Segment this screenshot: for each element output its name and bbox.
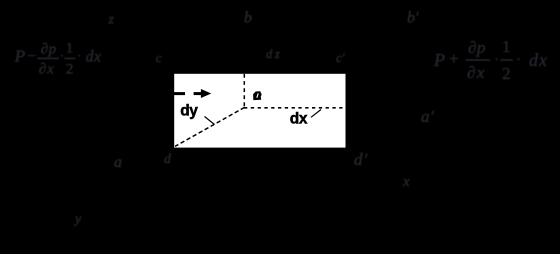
svg-text:·: · [516,52,521,68]
svg-text:dx: dx [529,50,548,70]
svg-text:·: · [77,49,82,64]
svg-text:·: · [60,49,65,64]
svg-text:∂x: ∂x [39,61,55,77]
svg-text:P: P [433,50,445,70]
svg-text:2: 2 [66,61,74,77]
svg-text:a′: a′ [421,107,434,126]
svg-text:∂p: ∂p [41,41,57,57]
svg-text:dy: dy [180,103,198,120]
svg-text:a: a [114,154,122,171]
svg-text:dx: dx [86,48,102,65]
svg-text:−: − [28,48,36,64]
svg-text:1: 1 [66,40,74,56]
svg-text:2: 2 [502,64,511,83]
svg-text:·: · [494,52,499,68]
svg-text:∂x: ∂x [467,63,486,82]
svg-text:d: d [164,152,172,167]
svg-text:x: x [402,174,410,190]
svg-text:dz: dz [266,47,282,61]
svg-text:∂p: ∂p [468,38,486,57]
svg-text:b: b [244,10,252,27]
svg-text:z: z [108,13,115,28]
svg-text:+: + [449,49,459,68]
svg-text:c: c [156,50,162,65]
svg-text:P: P [14,46,25,65]
svg-text:dx: dx [290,111,308,128]
svg-text:d′: d′ [354,150,368,169]
svg-text:b′: b′ [407,10,419,27]
svg-text:1: 1 [502,37,511,56]
svg-text:y: y [73,212,82,227]
svg-text:c′: c′ [336,50,345,65]
